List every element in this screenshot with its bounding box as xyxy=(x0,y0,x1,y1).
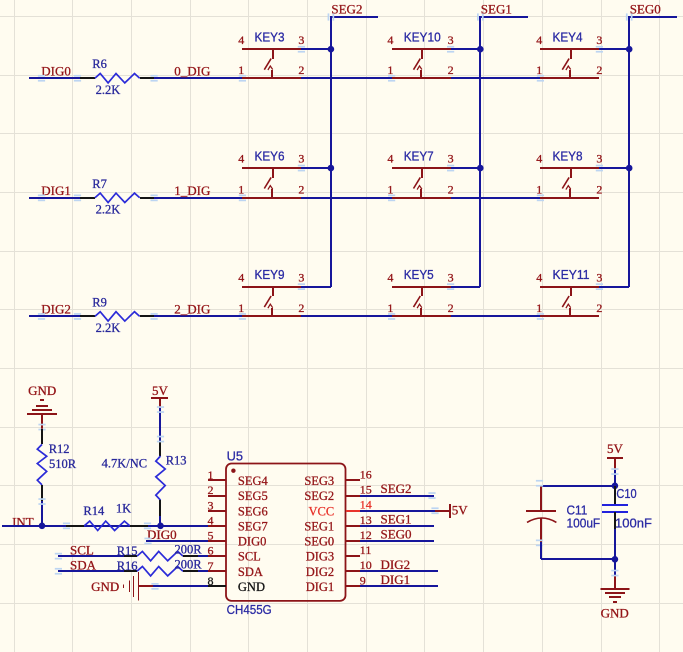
resistor R15 xyxy=(124,551,198,560)
pin 4 stub of U5 xyxy=(208,525,226,527)
svg-text:SEG2: SEG2 xyxy=(381,481,412,496)
ground symbol top-left xyxy=(27,400,57,414)
svg-text:DIG0: DIG0 xyxy=(147,527,177,542)
wire top rail xyxy=(541,485,615,487)
wire row 1 key2-key3 xyxy=(451,197,540,199)
switch KEY8 xyxy=(540,168,599,198)
svg-text:4: 4 xyxy=(387,152,393,166)
svg-text:DIG0: DIG0 xyxy=(238,535,266,549)
svg-text:4: 4 xyxy=(208,513,214,527)
switch KEY11 xyxy=(540,287,599,316)
svg-text:1: 1 xyxy=(238,301,244,315)
svg-text:1: 1 xyxy=(238,183,244,197)
svg-text:DIG0: DIG0 xyxy=(41,63,71,78)
wire 1_DIG xyxy=(154,197,242,199)
wire GND stem xyxy=(41,414,43,429)
svg-text:KEY6: KEY6 xyxy=(255,148,285,163)
junction INT/R13 xyxy=(157,523,164,530)
svg-text:C10: C10 xyxy=(616,486,636,501)
wire bottom rail xyxy=(541,558,615,560)
wire KEY7 pin3 to SEG1 xyxy=(451,167,480,169)
svg-text:2: 2 xyxy=(596,183,602,197)
svg-text:4: 4 xyxy=(238,152,244,166)
pin 14 stub of U5 xyxy=(346,510,360,512)
svg-text:R6: R6 xyxy=(92,57,107,71)
svg-text:16: 16 xyxy=(360,467,372,481)
power port 5V bar xyxy=(151,397,168,399)
svg-text:100nF: 100nF xyxy=(615,516,652,531)
pin 12 stub of U5 xyxy=(346,540,360,542)
svg-text:GND: GND xyxy=(238,580,265,594)
svg-text:3: 3 xyxy=(448,152,454,166)
svg-text:DIG2: DIG2 xyxy=(306,565,334,579)
junction SEG1 row2 xyxy=(477,165,484,172)
svg-text:SEG7: SEG7 xyxy=(238,519,268,533)
wire U5 pin10 DIG2 xyxy=(360,570,438,572)
svg-text:3: 3 xyxy=(298,152,304,166)
svg-text:SEG0: SEG0 xyxy=(381,527,412,542)
svg-text:1: 1 xyxy=(208,468,214,482)
svg-text:4: 4 xyxy=(238,270,244,284)
svg-text:3: 3 xyxy=(596,270,602,284)
wire SEG0 top stub xyxy=(629,16,677,18)
wire row 2 key2-key3 xyxy=(451,315,540,317)
svg-text:DIG1: DIG1 xyxy=(306,580,334,594)
svg-text:DIG3: DIG3 xyxy=(306,550,334,564)
resistor R16 xyxy=(124,567,198,576)
svg-text:3: 3 xyxy=(596,152,602,166)
junction SEG0 row1 xyxy=(626,46,633,53)
svg-text:5V: 5V xyxy=(452,503,469,518)
svg-text:SEG2: SEG2 xyxy=(331,1,362,16)
switch KEY10 xyxy=(392,49,451,78)
svg-text:VCC: VCC xyxy=(308,504,334,518)
svg-text:1: 1 xyxy=(536,183,542,197)
svg-text:U5: U5 xyxy=(227,449,243,464)
svg-text:4: 4 xyxy=(238,33,244,47)
svg-text:2: 2 xyxy=(298,301,304,315)
wire U5 pin9 DIG1 xyxy=(360,585,438,587)
wire C11 to bottom rail xyxy=(540,542,542,559)
svg-text:3: 3 xyxy=(298,33,304,47)
svg-text:3: 3 xyxy=(208,498,214,512)
wire 5V stem xyxy=(159,398,161,408)
wire row 0 key2-key3 xyxy=(451,77,540,79)
ground symbol at U5 pin8 xyxy=(124,572,139,600)
svg-text:3: 3 xyxy=(596,33,602,47)
svg-text:R14: R14 xyxy=(83,504,105,518)
svg-text:1K: 1K xyxy=(116,501,131,515)
svg-text:13: 13 xyxy=(360,513,372,527)
svg-text:DIG1: DIG1 xyxy=(41,183,71,198)
wire 5V to R13 xyxy=(159,408,161,441)
svg-text:4: 4 xyxy=(387,33,393,47)
power port 5V bar at VCC xyxy=(449,504,451,518)
svg-text:2: 2 xyxy=(298,183,304,197)
junction INT/R12 xyxy=(39,523,46,530)
wire GND right stem xyxy=(614,575,616,589)
capacitor C10 xyxy=(602,486,628,559)
pin 6 stub of U5 xyxy=(208,555,226,557)
junction SEG2 row2 xyxy=(328,165,335,172)
pin1 indicator dot xyxy=(231,469,235,473)
svg-text:KEY8: KEY8 xyxy=(553,148,583,163)
svg-text:1: 1 xyxy=(536,63,542,77)
svg-text:4: 4 xyxy=(536,152,542,166)
svg-text:2: 2 xyxy=(596,63,602,77)
pin 13 stub of U5 xyxy=(346,525,360,527)
svg-text:1: 1 xyxy=(387,63,393,77)
svg-text:R12: R12 xyxy=(49,442,70,456)
wire GND to U5 pin8 xyxy=(153,585,208,587)
svg-text:2: 2 xyxy=(448,183,454,197)
svg-text:SEG6: SEG6 xyxy=(238,504,268,518)
svg-text:2: 2 xyxy=(448,63,454,77)
wire U5 pin15 SEG2 xyxy=(360,495,434,497)
wire row 0 key1-key2 xyxy=(301,77,392,79)
svg-text:SEG1: SEG1 xyxy=(381,512,412,527)
wire KEY10 pin3 to SEG1 xyxy=(451,48,480,50)
svg-text:SEG2: SEG2 xyxy=(304,489,334,503)
svg-text:100uF: 100uF xyxy=(567,516,601,531)
svg-text:1: 1 xyxy=(387,301,393,315)
wire bottom junction to GND xyxy=(614,559,616,575)
wire DIG0 to U5 pin5 xyxy=(146,540,208,542)
junction bottom rail / C10 xyxy=(612,556,619,563)
pin 1 stub of U5 xyxy=(208,479,226,481)
svg-text:SEG1: SEG1 xyxy=(304,519,334,533)
svg-text:GND: GND xyxy=(28,383,56,398)
svg-text:KEY11: KEY11 xyxy=(553,267,590,282)
wire SEG2 vertical bus xyxy=(330,16,332,287)
svg-text:DIG2: DIG2 xyxy=(41,302,71,317)
resistor R12 xyxy=(37,429,46,501)
svg-text:1_DIG: 1_DIG xyxy=(174,183,210,198)
pin 2 stub of U5 xyxy=(208,495,226,497)
wire U5 pin13 SEG1 xyxy=(360,525,434,527)
svg-text:DIG2: DIG2 xyxy=(381,557,411,572)
wire KEY11 pin3 to SEG0 xyxy=(599,286,629,288)
svg-text:4: 4 xyxy=(536,270,542,284)
wire row 2 key1-key2 xyxy=(301,315,392,317)
wire SEG0 vertical bus xyxy=(628,16,630,287)
resistor R6 xyxy=(80,74,154,83)
op-amp U5 CH455G IC body xyxy=(226,464,346,601)
svg-text:2: 2 xyxy=(298,63,304,77)
pin 8 stub of U5 xyxy=(208,585,226,587)
wire SCL xyxy=(58,555,124,557)
svg-text:12: 12 xyxy=(360,528,372,542)
wire R12 to INT xyxy=(41,501,43,526)
switch KEY7 xyxy=(392,168,451,198)
resistor R7 xyxy=(80,193,154,202)
svg-text:GND: GND xyxy=(601,605,629,620)
wire SEG1 vertical bus xyxy=(479,16,481,287)
wire U5 pin14 VCC to 5V xyxy=(360,510,435,512)
switch KEY6 xyxy=(242,168,301,198)
wire 5V right stem xyxy=(614,458,616,470)
switch KEY3 xyxy=(242,49,301,78)
junction SEG1 row1 xyxy=(477,46,484,53)
svg-text:0_DIG: 0_DIG xyxy=(174,63,210,78)
svg-text:DIG1: DIG1 xyxy=(381,572,411,587)
svg-text:SEG5: SEG5 xyxy=(238,489,268,503)
svg-text:5: 5 xyxy=(208,529,214,543)
wire R15 to U5 pin6 xyxy=(198,555,208,557)
wire R16 to U5 pin7 xyxy=(198,570,208,572)
wire KEY9 pin3 to SEG2 xyxy=(301,286,331,288)
svg-text:11: 11 xyxy=(360,543,372,557)
svg-text:2: 2 xyxy=(208,483,214,497)
ground symbol bottom-right xyxy=(600,589,629,602)
svg-text:1: 1 xyxy=(238,63,244,77)
svg-text:2: 2 xyxy=(596,301,602,315)
wire KEY8 pin3 to SEG0 xyxy=(599,167,629,169)
svg-text:5V: 5V xyxy=(607,441,624,456)
wire DIG0 row 0 xyxy=(29,77,80,79)
switch KEY5 xyxy=(392,287,451,316)
wire SDA xyxy=(58,570,124,572)
wire KEY6 pin3 to SEG2 xyxy=(301,167,331,169)
svg-text:GND: GND xyxy=(91,579,119,594)
svg-text:SEG4: SEG4 xyxy=(238,474,269,488)
resistor R9 xyxy=(80,312,154,321)
wire 5V to top junction xyxy=(614,470,616,486)
svg-text:R16: R16 xyxy=(117,559,138,573)
wire INT row to U5 pin4 xyxy=(2,525,208,527)
switch KEY4 xyxy=(540,49,599,78)
svg-text:KEY7: KEY7 xyxy=(404,148,434,163)
svg-text:SEG0: SEG0 xyxy=(630,1,661,16)
svg-text:KEY9: KEY9 xyxy=(255,267,285,282)
capacitor C11 xyxy=(526,486,556,542)
svg-text:KEY5: KEY5 xyxy=(404,267,434,282)
svg-text:1: 1 xyxy=(536,301,542,315)
pin 10 stub of U5 xyxy=(346,570,360,572)
svg-text:15: 15 xyxy=(360,483,372,497)
svg-text:2_DIG: 2_DIG xyxy=(174,302,210,317)
svg-text:SDA: SDA xyxy=(238,565,263,579)
wire KEY3 pin3 to SEG2 xyxy=(301,48,331,50)
wire SEG2 top stub xyxy=(331,16,378,18)
wire KEY4 pin3 to SEG0 xyxy=(599,48,629,50)
svg-text:14: 14 xyxy=(360,498,372,512)
pin 9 stub of U5 xyxy=(346,585,360,587)
svg-text:7: 7 xyxy=(208,559,214,573)
junction SEG2 row1 xyxy=(328,46,335,53)
svg-text:4: 4 xyxy=(387,270,393,284)
svg-text:R13: R13 xyxy=(166,454,187,468)
pin 3 stub of U5 xyxy=(208,510,226,512)
wire R13 to INT xyxy=(159,516,161,526)
svg-text:INT: INT xyxy=(12,514,34,529)
svg-text:2.2K: 2.2K xyxy=(96,321,121,335)
svg-text:KEY10: KEY10 xyxy=(404,30,441,45)
pin 15 stub of U5 xyxy=(346,495,360,497)
wire row 1 key1-key2 xyxy=(301,197,392,199)
svg-text:200R: 200R xyxy=(175,558,203,572)
wire KEY5 pin3 to SEG1 xyxy=(451,286,480,288)
resistor R13 xyxy=(156,441,165,516)
svg-text:SEG0: SEG0 xyxy=(304,535,334,549)
svg-text:4: 4 xyxy=(536,33,542,47)
svg-text:R9: R9 xyxy=(92,295,107,309)
svg-text:510R: 510R xyxy=(49,457,77,471)
svg-text:3: 3 xyxy=(448,33,454,47)
svg-text:R7: R7 xyxy=(92,177,107,191)
svg-text:KEY4: KEY4 xyxy=(553,30,583,45)
switch KEY9 xyxy=(242,287,301,316)
svg-text:KEY3: KEY3 xyxy=(255,30,285,45)
power port 5V stem at VCC xyxy=(435,510,450,512)
svg-text:4.7K/NC: 4.7K/NC xyxy=(102,457,148,471)
wire GND stem to pin8 xyxy=(138,585,153,587)
wire 0_DIG xyxy=(154,77,242,79)
svg-text:1: 1 xyxy=(387,183,393,197)
svg-text:200R: 200R xyxy=(175,543,203,557)
svg-text:8: 8 xyxy=(208,574,214,588)
svg-text:SCL: SCL xyxy=(238,550,261,564)
pin 5 stub of U5 xyxy=(208,540,226,542)
pin 16 stub of U5 xyxy=(346,479,360,481)
resistor R14 xyxy=(66,521,148,530)
pin 11 stub of U5 xyxy=(346,555,360,557)
svg-text:3: 3 xyxy=(298,270,304,284)
svg-text:CH455G: CH455G xyxy=(227,602,272,617)
svg-text:3: 3 xyxy=(448,270,454,284)
pin 7 stub of U5 xyxy=(208,570,226,572)
svg-text:SEG1: SEG1 xyxy=(481,1,512,16)
wire SEG1 top stub xyxy=(480,16,528,18)
svg-text:5V: 5V xyxy=(152,383,169,398)
junction top rail / C10 xyxy=(612,483,619,490)
svg-text:6: 6 xyxy=(208,544,214,558)
wire DIG1 row 1 xyxy=(29,197,80,199)
wire 2_DIG xyxy=(154,315,242,317)
wire U5 pin12 SEG0 xyxy=(360,540,434,542)
wire DIG2 row 2 xyxy=(29,315,80,317)
svg-text:SEG3: SEG3 xyxy=(304,474,334,488)
svg-text:2: 2 xyxy=(448,301,454,315)
power port 5V right bar xyxy=(607,457,623,459)
svg-text:2.2K: 2.2K xyxy=(96,202,121,216)
junction SEG0 row2 xyxy=(626,165,633,172)
svg-text:R15: R15 xyxy=(117,544,138,558)
svg-text:2.2K: 2.2K xyxy=(96,83,121,97)
